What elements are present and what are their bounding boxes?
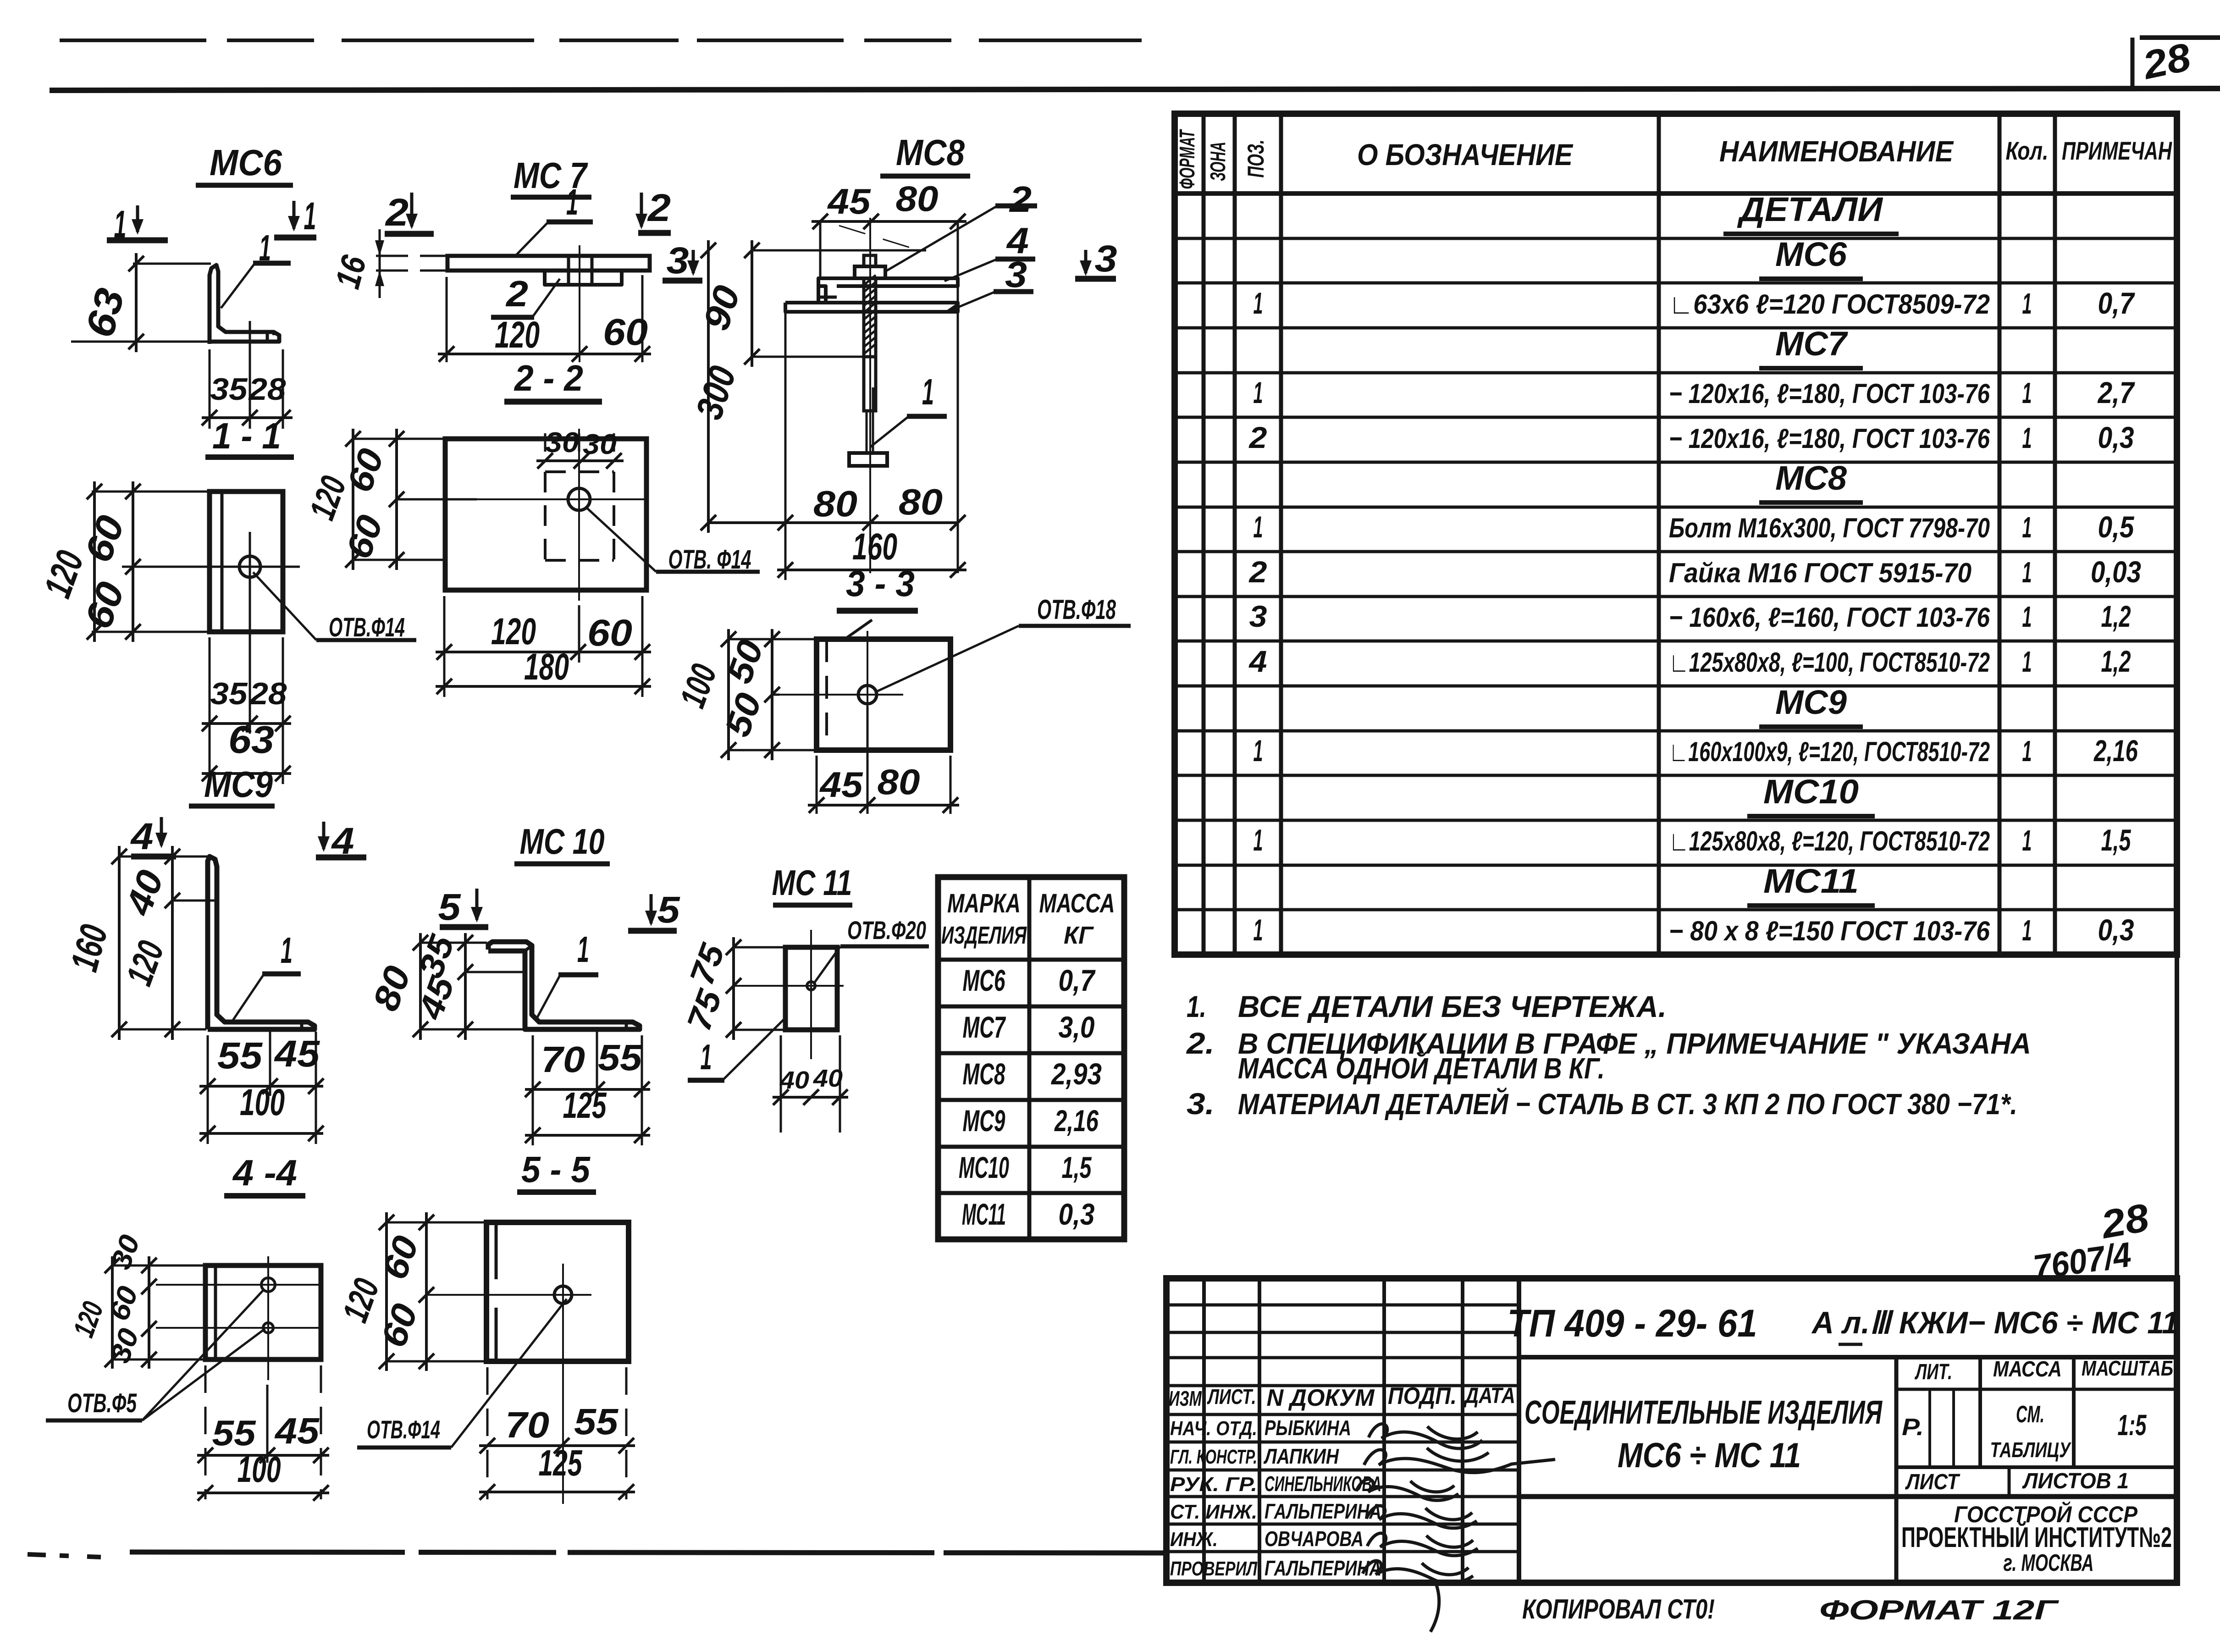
MC7 bottom extension lines bbox=[447, 275, 642, 362]
section 2-2 plate outline bbox=[445, 439, 646, 590]
title block outer frame bbox=[1166, 1278, 2177, 1583]
section 5-5 left extension lines bbox=[387, 1222, 485, 1361]
MC7 dim 120 60 bbox=[438, 311, 651, 362]
section 3-3 dim 50 50 bbox=[717, 629, 780, 760]
MC6 bottom extension lines bbox=[210, 321, 283, 429]
svg-text:ИНЖ.: ИНЖ. bbox=[1170, 1528, 1218, 1551]
spec row 11: ∟125х80х8, ℓ=100, ГОСТ8510-72 bbox=[1248, 644, 2131, 678]
mass table row МС8 bbox=[963, 1057, 1102, 1091]
svg-text:МС11: МС11 bbox=[962, 1197, 1006, 1231]
svg-text:1: 1 bbox=[1254, 286, 1263, 320]
svg-text:55: 55 bbox=[574, 1401, 619, 1442]
svg-text:НАЧ. ОТД.: НАЧ. ОТД. bbox=[1170, 1417, 1257, 1440]
title block list listov row bbox=[1905, 1469, 2129, 1494]
spec row 14: МС10 bbox=[1747, 773, 1875, 816]
title block header row izm list bbox=[1169, 1383, 1515, 1411]
svg-text:Гайка М16 ГОСТ 5915-70: Гайка М16 ГОСТ 5915-70 bbox=[1669, 558, 1971, 588]
MC11 hole bbox=[807, 982, 815, 990]
svg-text:120: 120 bbox=[495, 314, 540, 356]
spec row 17: − 80 х 8 ℓ=150 ГОСТ 103-76 bbox=[1254, 913, 2134, 947]
MC7 plate top view bbox=[447, 256, 650, 271]
MC10 leader 1 bbox=[536, 929, 598, 1021]
svg-text:180: 180 bbox=[524, 646, 569, 688]
MC6 dim 63 extension lines bbox=[71, 264, 211, 342]
section mark 3 left (MC8) bbox=[663, 240, 702, 282]
svg-text:О БОЗНАЧЕНИЕ: О БОЗНАЧЕНИЕ bbox=[1357, 138, 1574, 171]
spec row 4: МС7 bbox=[1759, 325, 1863, 368]
MC7 dim 16 bbox=[328, 229, 384, 298]
MC9 dim 40 120 bbox=[117, 846, 180, 1040]
svg-text:28: 28 bbox=[248, 372, 286, 407]
svg-text:1: 1 bbox=[577, 929, 589, 970]
MC8 dim 45 80 top bbox=[812, 178, 966, 229]
section 2-2 hole bbox=[568, 488, 590, 510]
MC6 dim 35 28 bbox=[202, 372, 293, 425]
MC8 left extension line bbox=[784, 312, 787, 580]
spec table header texts bbox=[1175, 129, 2172, 189]
svg-text:Болт М16х300, ГОСТ 7798-70: Болт М16х300, ГОСТ 7798-70 bbox=[1669, 513, 1990, 543]
svg-text:КГ: КГ bbox=[1064, 922, 1094, 949]
svg-text:КОПИРОВАЛ СТ0!: КОПИРОВАЛ СТ0! bbox=[1522, 1594, 1715, 1624]
MC8 plate detail 3 bbox=[785, 303, 958, 312]
svg-text:МС 10: МС 10 bbox=[520, 821, 605, 862]
doc number 28 bbox=[2097, 1195, 2152, 1247]
MC11 centerlines bbox=[734, 930, 844, 1059]
section 4-4 centerlines bbox=[156, 1256, 321, 1380]
svg-text:1: 1 bbox=[304, 194, 316, 238]
svg-text:N ДОКУМ: N ДОКУМ bbox=[1267, 1385, 1375, 1411]
svg-text:МС9: МС9 bbox=[1775, 683, 1847, 721]
mass table row МС7 bbox=[963, 1010, 1095, 1044]
section 5-5 dim 70 55 bbox=[479, 1401, 635, 1453]
svg-text:3: 3 bbox=[1005, 254, 1027, 295]
svg-text:60: 60 bbox=[587, 612, 632, 654]
svg-text:1: 1 bbox=[2022, 914, 2032, 947]
svg-text:2,16: 2,16 bbox=[1054, 1104, 1099, 1138]
svg-text:45: 45 bbox=[274, 1410, 320, 1451]
svg-text:1:5: 1:5 bbox=[2118, 1409, 2147, 1442]
svg-text:2: 2 bbox=[647, 186, 671, 229]
section 3-3 left extension lines bbox=[729, 639, 815, 750]
title block org name bbox=[1901, 1501, 2172, 1576]
svg-text:ПРИМЕЧАН: ПРИМЕЧАН bbox=[2062, 136, 2172, 165]
spec row 12: МС9 bbox=[1759, 683, 1863, 727]
MC7 dim 16 extension lines bbox=[376, 256, 447, 271]
section 4-4 dim 55 45 bottom bbox=[197, 1410, 329, 1463]
MC9 angle profile bbox=[208, 856, 315, 1029]
MC9 leader 1 bbox=[232, 930, 301, 1022]
svg-text:30: 30 bbox=[545, 427, 579, 459]
svg-text:А л.Ⅲ КЖИ− МС6 ÷ МС 11: А л.Ⅲ КЖИ− МС6 ÷ МС 11 bbox=[1811, 1305, 2179, 1340]
svg-text:3: 3 bbox=[1249, 599, 1267, 633]
title block row ПРОВЕРИЛ ГАЛЬПЕРИНА bbox=[1170, 1556, 1381, 1580]
svg-text:МС 11: МС 11 bbox=[772, 862, 852, 903]
section 1-1 plate outline bbox=[210, 492, 283, 632]
title block left grid bbox=[1166, 1278, 1519, 1583]
svg-text:МС6 ÷ МС 11: МС6 ÷ МС 11 bbox=[1618, 1436, 1801, 1475]
section 2-2 left extension lines bbox=[353, 439, 477, 560]
section 1-1 dim 120 bbox=[35, 481, 102, 642]
svg-text:− 160х6, ℓ=160, ГОСТ 103-76: − 160х6, ℓ=160, ГОСТ 103-76 bbox=[1669, 602, 1990, 633]
mass table row МС10 bbox=[959, 1150, 1092, 1184]
MC7 stub plate below bbox=[545, 256, 622, 285]
title block row ИНЖ. ОВЧАРОВА bbox=[1170, 1527, 1364, 1551]
svg-text:СТ. ИНЖ.: СТ. ИНЖ. bbox=[1170, 1501, 1257, 1523]
section 1-1 bottom extension lines bbox=[210, 582, 283, 784]
note 2 line 2 bbox=[1238, 1051, 1605, 1085]
MC8 bolt shank hatched bbox=[864, 275, 876, 357]
svg-text:ДАТА: ДАТА bbox=[1463, 1384, 1515, 1408]
svg-text:НАИМЕНОВАНИЕ: НАИМЕНОВАНИЕ bbox=[1719, 135, 1954, 168]
svg-text:ГАЛЬПЕРИНА: ГАЛЬПЕРИНА bbox=[1265, 1499, 1381, 1523]
svg-text:1: 1 bbox=[2022, 421, 2032, 454]
svg-text:4 -4: 4 -4 bbox=[232, 1152, 297, 1193]
svg-text:1,2: 1,2 bbox=[2101, 599, 2131, 633]
svg-text:1: 1 bbox=[2022, 600, 2032, 633]
svg-text:ЛИТ.: ЛИТ. bbox=[1915, 1360, 1952, 1384]
spec row 3: ∟63х6 ℓ=120 ГОСТ8509-72 bbox=[1254, 286, 2136, 320]
mass table header bbox=[941, 889, 1115, 949]
svg-text:− 80 х 8 ℓ=150 ГОСТ 103-76: − 80 х 8 ℓ=150 ГОСТ 103-76 bbox=[1669, 916, 1990, 946]
svg-text:− 120х16, ℓ=180, ГОСТ 103-76: − 120х16, ℓ=180, ГОСТ 103-76 bbox=[1669, 423, 1990, 454]
svg-text:1.: 1. bbox=[1187, 989, 1206, 1023]
svg-text:2: 2 bbox=[1248, 420, 1267, 454]
footer text format bbox=[1819, 1595, 2060, 1625]
svg-text:0,7: 0,7 bbox=[2098, 286, 2136, 320]
svg-text:ТП 409 - 29- 61: ТП 409 - 29- 61 bbox=[1508, 1302, 1757, 1345]
svg-text:40: 40 bbox=[779, 1066, 809, 1094]
svg-text:МС9: МС9 bbox=[963, 1104, 1005, 1138]
svg-text:100: 100 bbox=[237, 1449, 281, 1490]
spec row 6: − 120х16, ℓ=180, ГОСТ 103-76 bbox=[1248, 420, 2134, 454]
svg-text:ПРОЕКТНЫЙ ИНСТИТУТ№2: ПРОЕКТНЫЙ ИНСТИТУТ№2 bbox=[1901, 1521, 2172, 1553]
page number 28 box bbox=[2132, 35, 2194, 88]
title block lit massa masshtab grid bbox=[1519, 1357, 2177, 1583]
title block doc number row bbox=[1508, 1302, 2179, 1357]
svg-text:МАССА: МАССА bbox=[1039, 889, 1115, 918]
MC8 bolt lower shank bbox=[864, 357, 876, 453]
svg-text:ИЗДЕЛИЯ: ИЗДЕЛИЯ bbox=[941, 922, 1027, 949]
svg-text:2: 2 bbox=[505, 273, 528, 314]
MC8 bolt head bbox=[849, 453, 887, 466]
svg-text:ИЗМ: ИЗМ bbox=[1169, 1387, 1202, 1410]
svg-text:1 - 1: 1 - 1 bbox=[212, 415, 281, 456]
section mark 3 right (MC8) bbox=[1075, 238, 1117, 280]
sheet top dashed scan line bbox=[60, 38, 2220, 40]
svg-text:70: 70 bbox=[541, 1039, 585, 1080]
section 3-3 leader otv f18 bbox=[875, 594, 1131, 692]
leader 4 (MC8 angle) bbox=[944, 220, 1035, 281]
svg-text:СОЕДИНИТЕЛЬНЫЕ ИЗДЕЛИЯ: СОЕДИНИТЕЛЬНЫЕ ИЗДЕЛИЯ bbox=[1524, 1394, 1883, 1431]
section 3-3 plate outline bbox=[817, 639, 950, 750]
svg-text:МС10: МС10 bbox=[1763, 773, 1859, 811]
svg-text:40: 40 bbox=[813, 1065, 843, 1092]
section 5-5 leader otv f14 bbox=[357, 1299, 567, 1448]
mass table row МС6 bbox=[963, 963, 1096, 997]
section 3-3 dim 100 bbox=[672, 629, 736, 760]
spec row 5: − 120х16, ℓ=180, ГОСТ 103-76 bbox=[1254, 376, 2136, 409]
MC11 bottom extension lines bbox=[781, 1035, 840, 1133]
svg-text:ОТВ.Ф20: ОТВ.Ф20 bbox=[847, 916, 926, 945]
leader 3 (MC8 plate) bbox=[956, 254, 1033, 308]
svg-text:3: 3 bbox=[1095, 238, 1117, 280]
spec table row lines bbox=[1175, 238, 2177, 910]
svg-text:МС8: МС8 bbox=[896, 132, 965, 173]
section 5-5 dim 120 bbox=[334, 1212, 394, 1371]
title block name cell bbox=[1524, 1394, 1883, 1475]
spec row 8: Болт М16х300, ГОСТ 7798-70 bbox=[1254, 510, 2135, 544]
svg-text:МС6: МС6 bbox=[1775, 235, 1847, 273]
svg-text:МАСШТАБ: МАСШТАБ bbox=[2082, 1356, 2173, 1380]
svg-text:1,5: 1,5 bbox=[1062, 1150, 1092, 1184]
note 3 bbox=[1187, 1087, 2017, 1121]
svg-text:3: 3 bbox=[667, 240, 689, 282]
MC10 bottom extension lines bbox=[533, 1029, 642, 1145]
spec row 9: Гайка М16 ГОСТ 5915-70 bbox=[1248, 555, 2141, 589]
svg-text:5 - 5: 5 - 5 bbox=[521, 1149, 591, 1190]
svg-text:ФОРМАТ 12Г: ФОРМАТ 12Г bbox=[1819, 1595, 2060, 1625]
svg-text:ОТВ.Ф18: ОТВ.Ф18 bbox=[1037, 594, 1116, 625]
svg-text:80: 80 bbox=[896, 178, 939, 219]
doc number 7607/4 bbox=[2031, 1235, 2134, 1287]
title block signatures bbox=[1356, 1424, 1555, 1632]
leader 1 (MC8 bolt) bbox=[870, 371, 947, 447]
section mark 5 left (MC10) bbox=[438, 886, 489, 928]
section 1-1 title bbox=[205, 415, 294, 457]
svg-text:1: 1 bbox=[281, 930, 293, 971]
svg-text:∟160х100х9, ℓ=120, ГОСТ8510-72: ∟160х100х9, ℓ=120, ГОСТ8510-72 bbox=[1669, 736, 1990, 767]
svg-text:45: 45 bbox=[827, 181, 871, 221]
svg-text:МС7: МС7 bbox=[963, 1010, 1006, 1044]
svg-text:5: 5 bbox=[438, 886, 461, 928]
svg-text:0,3: 0,3 bbox=[2098, 913, 2134, 947]
section 5-5 plate outline bbox=[486, 1222, 629, 1361]
section 3-3 centerlines bbox=[779, 631, 903, 779]
spec row 16: МС11 bbox=[1747, 862, 1875, 906]
svg-text:1: 1 bbox=[922, 371, 934, 412]
svg-text:ОВЧАРОВА: ОВЧАРОВА bbox=[1265, 1527, 1364, 1551]
spec table outer frame bbox=[1175, 114, 2177, 955]
section 2-2 dim 180 bottom bbox=[436, 646, 651, 694]
section 3-3 bottom extension lines bbox=[817, 706, 950, 814]
footer text kopiroval bbox=[1522, 1594, 1715, 1624]
MC8 bottom reference line bbox=[708, 481, 966, 530]
view MC8 title bbox=[880, 132, 970, 176]
spec row 15: ∟125х80х8, ℓ=120, ГОСТ8510-72 bbox=[1254, 823, 2132, 857]
section mark 1 right (MC6) bbox=[274, 194, 316, 238]
MC9 top extension line bbox=[119, 856, 215, 1029]
svg-text:28: 28 bbox=[249, 676, 287, 711]
mass table row МС11 bbox=[962, 1197, 1095, 1231]
section 2-2 title bbox=[504, 358, 602, 402]
MC8 dim 300 bbox=[688, 240, 744, 533]
MC10 left extension lines bbox=[420, 943, 526, 1029]
MC8 stray scan diagonal bbox=[839, 226, 910, 248]
svg-text:2,16: 2,16 bbox=[2093, 734, 2138, 768]
MC8 reference line top bbox=[753, 249, 926, 252]
svg-text:РУК. ГР.: РУК. ГР. bbox=[1170, 1473, 1257, 1496]
section 1-1 centerlines bbox=[122, 532, 300, 683]
section 4-4 holes bbox=[261, 1278, 275, 1333]
section mark 5 left (MC11) bbox=[628, 889, 680, 931]
svg-text:55: 55 bbox=[598, 1037, 643, 1078]
MC8 dim 160 bbox=[777, 526, 966, 578]
section 2-2 dim 120 60 bottom bbox=[436, 611, 651, 660]
MC11 leader otv f20 bbox=[814, 916, 929, 983]
svg-text:∟125х80х8, ℓ=120, ГОСТ8510-72: ∟125х80х8, ℓ=120, ГОСТ8510-72 bbox=[1669, 826, 1990, 856]
MC10 dim 125 bbox=[525, 1085, 650, 1143]
svg-text:0,5: 0,5 bbox=[2098, 510, 2135, 544]
title block row СТ. ИНЖ. ГАЛЬПЕРИНА bbox=[1170, 1499, 1381, 1523]
svg-text:0,3: 0,3 bbox=[2098, 420, 2134, 454]
svg-text:35: 35 bbox=[210, 372, 248, 407]
MC11 dim 40 40 bbox=[773, 1065, 848, 1105]
svg-text:∟125х80х8, ℓ=100, ГОСТ8510-72: ∟125х80х8, ℓ=100, ГОСТ8510-72 bbox=[1669, 647, 1990, 678]
svg-text:160: 160 bbox=[852, 526, 897, 568]
spec table column lines bbox=[1204, 114, 2055, 955]
MC9 dim 55 45 bbox=[199, 1033, 324, 1094]
svg-text:ОТВ. Ф14: ОТВ. Ф14 bbox=[668, 545, 751, 575]
section 2-2 dim 30 30 top bbox=[536, 427, 624, 469]
MC8 dim 90 bbox=[696, 240, 760, 367]
section 4-4 dim 120 bbox=[67, 1256, 120, 1369]
MC11 left extension lines bbox=[734, 947, 784, 1030]
svg-text:МС8: МС8 bbox=[963, 1057, 1005, 1091]
svg-text:ОТВ.Ф14: ОТВ.Ф14 bbox=[329, 613, 405, 642]
svg-text:ЗОНА: ЗОНА bbox=[1206, 142, 1230, 181]
view MC7 title bbox=[511, 155, 591, 197]
MC10 z profile bbox=[488, 942, 640, 1029]
MC6 dim 63 bbox=[77, 253, 144, 352]
MC8 top extension lines bbox=[820, 221, 958, 573]
svg-text:1: 1 bbox=[2022, 824, 2032, 857]
section mark 4 right (MC9) bbox=[316, 820, 366, 862]
svg-text:МАТЕРИАЛ ДЕТАЛЕЙ − СТАЛЬ: МАТЕРИАЛ ДЕТАЛЕЙ − СТАЛЬ В СТ. 3 КП 2 ПО… bbox=[1238, 1087, 2017, 1121]
svg-text:4: 4 bbox=[130, 816, 153, 857]
svg-text:2: 2 bbox=[1248, 555, 1267, 589]
MC8 centerline bbox=[869, 218, 871, 573]
svg-text:55: 55 bbox=[212, 1413, 257, 1453]
svg-text:80: 80 bbox=[899, 481, 943, 522]
svg-text:1: 1 bbox=[1254, 376, 1263, 409]
svg-text:∟63х6 ℓ=120 ГОСТ8509-72: ∟63х6 ℓ=120 ГОСТ8509-72 bbox=[1669, 289, 1990, 320]
section 2-2 centerlines bbox=[477, 429, 646, 601]
section 5-5 dim 125 bbox=[479, 1442, 635, 1500]
MC9 dim 160 bbox=[62, 846, 127, 1040]
svg-text:ДЕТАЛИ: ДЕТАЛИ bbox=[1737, 190, 1883, 228]
spec table header row line bbox=[1175, 191, 2177, 196]
svg-text:СИНЕЛЬНИКОВА: СИНЕЛЬНИКОВА bbox=[1265, 1472, 1381, 1496]
svg-text:ЛАПКИН: ЛАПКИН bbox=[1263, 1444, 1339, 1468]
svg-text:55: 55 bbox=[217, 1035, 263, 1077]
svg-text:1: 1 bbox=[2022, 287, 2032, 320]
svg-text:2,7: 2,7 bbox=[2097, 376, 2136, 409]
section 4-4 title bbox=[224, 1152, 305, 1196]
section mark 1 left (MC6) bbox=[107, 203, 168, 246]
svg-text:МС11: МС11 bbox=[1763, 862, 1859, 900]
svg-text:1,5: 1,5 bbox=[2101, 823, 2132, 857]
MC9 dim 100 bbox=[199, 1082, 324, 1141]
MC7 centerline bbox=[579, 245, 580, 362]
MC11 leader 1 bbox=[688, 1017, 786, 1080]
svg-text:100: 100 bbox=[240, 1082, 285, 1123]
section 4-4 dim 100 bottom bbox=[197, 1449, 329, 1501]
svg-text:125: 125 bbox=[563, 1085, 607, 1126]
title block row ГЛ. КОНСТР. ЛАПКИН bbox=[1170, 1444, 1339, 1468]
section 3-3 title bbox=[837, 563, 918, 611]
spec row 13: ∟160х100х9, ℓ=120, ГОСТ8510-72 bbox=[1254, 734, 2138, 768]
svg-text:0,3: 0,3 bbox=[1059, 1197, 1095, 1231]
svg-text:4: 4 bbox=[1248, 644, 1267, 678]
view MC10 title bbox=[514, 821, 610, 864]
svg-text:г. МОСКВА: г. МОСКВА bbox=[2004, 1550, 2094, 1576]
section mark 4 left (MC9) bbox=[130, 816, 176, 857]
section 2-2 dim 120 left bbox=[301, 429, 361, 570]
svg-text:1: 1 bbox=[1254, 510, 1263, 544]
svg-text:МС8: МС8 bbox=[1775, 459, 1847, 497]
svg-text:2: 2 bbox=[385, 191, 409, 234]
section 3-3 hole bbox=[858, 685, 877, 704]
leader 1 (MC6 angle) bbox=[221, 227, 291, 308]
note 2 line 1 bbox=[1186, 1026, 2031, 1060]
sheet bottom border line bbox=[28, 1552, 1166, 1557]
title block row РУК. ГР. СИНЕЛЬНИКОВА bbox=[1170, 1472, 1381, 1496]
section 5-5 hole bbox=[554, 1286, 572, 1304]
svg-text:125: 125 bbox=[539, 1442, 583, 1483]
section 4-4 left extension lines bbox=[112, 1265, 206, 1359]
svg-text:2: 2 bbox=[1009, 179, 1032, 220]
leader 2 (MC8 nut) bbox=[885, 179, 1037, 271]
MC8 dim 90 extension bbox=[752, 356, 864, 358]
section 1-1 dim 63 bottom bbox=[202, 718, 291, 781]
leader 1 (MC7 plate) bbox=[516, 182, 593, 255]
svg-text:1: 1 bbox=[566, 182, 578, 222]
svg-text:60: 60 bbox=[603, 311, 648, 353]
svg-text:0,03: 0,03 bbox=[2091, 555, 2141, 589]
section 4-4 dim 30 60 30 bbox=[103, 1231, 157, 1369]
section mark 2 right (MC7) bbox=[635, 186, 671, 233]
svg-text:МС7: МС7 bbox=[1775, 325, 1849, 363]
sheet right border bbox=[2175, 114, 2179, 1583]
svg-text:1: 1 bbox=[2022, 376, 2032, 409]
section 4-4 plate outline bbox=[205, 1265, 321, 1359]
svg-text:ФОРМАТ: ФОРМАТ bbox=[1175, 129, 1199, 189]
svg-text:ЛИСТ.: ЛИСТ. bbox=[1207, 1385, 1256, 1409]
svg-text:2.: 2. bbox=[1186, 1026, 1215, 1060]
svg-text:30: 30 bbox=[583, 429, 617, 460]
svg-text:1: 1 bbox=[2022, 645, 2032, 678]
section 2-2 leader otv f14 bbox=[586, 508, 760, 575]
svg-text:2 - 2: 2 - 2 bbox=[514, 358, 583, 398]
view MC9 title bbox=[189, 764, 275, 806]
spec row 2: МС6 bbox=[1759, 235, 1863, 279]
svg-text:80: 80 bbox=[813, 483, 857, 524]
svg-text:1: 1 bbox=[2022, 511, 2032, 544]
section 5-5 centerlines bbox=[426, 1264, 591, 1504]
MC10 dim 80 bbox=[365, 933, 428, 1040]
MC11 plate outline bbox=[785, 947, 837, 1030]
svg-text:МС10: МС10 bbox=[959, 1150, 1009, 1184]
section 4-4 bottom extension lines bbox=[205, 1365, 321, 1499]
section 1-1 dim 60 60 bbox=[76, 481, 141, 642]
svg-text:МАРКА: МАРКА bbox=[947, 889, 1021, 918]
svg-text:МС6: МС6 bbox=[963, 963, 1006, 997]
svg-text:3 - 3: 3 - 3 bbox=[846, 563, 915, 604]
svg-text:70: 70 bbox=[505, 1404, 549, 1445]
svg-text:1,2: 1,2 bbox=[2101, 644, 2131, 678]
svg-text:80: 80 bbox=[878, 762, 920, 802]
svg-text:45: 45 bbox=[274, 1033, 320, 1075]
